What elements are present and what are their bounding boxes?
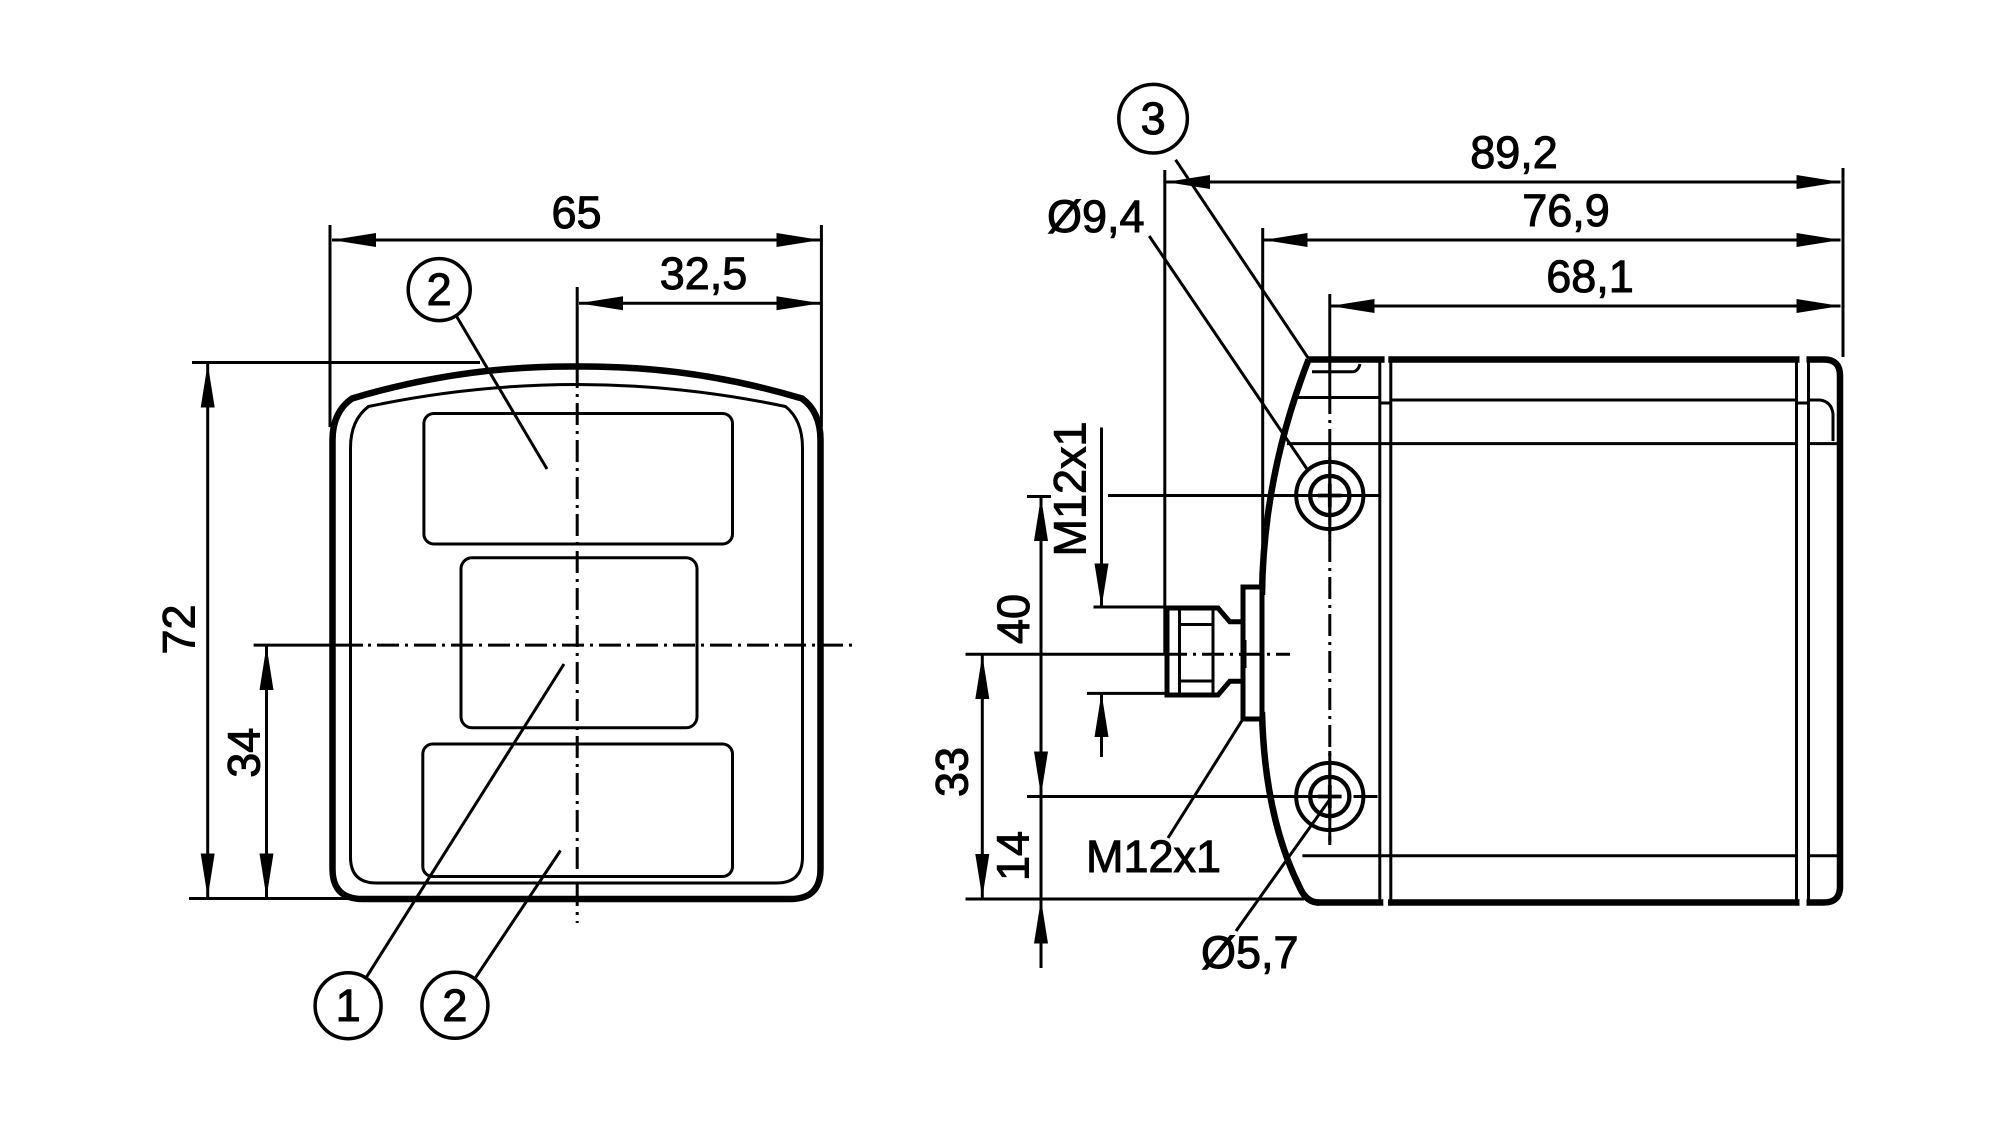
callout 2 (bottom): leader line to bottom window — [475, 851, 561, 979]
M12 connector thread minor line (bottom) — [1180, 680, 1214, 683]
dimension M12x1: dimension line lower segment — [1100, 693, 1103, 757]
svg-text:M12x1: M12x1 — [1045, 421, 1096, 556]
dimension 72: top extension line — [192, 361, 480, 364]
housing horizontal parting line (lower) — [1302, 854, 1796, 857]
svg-text:65: 65 — [551, 187, 601, 238]
dimension 65: left arrowhead — [332, 233, 376, 247]
top illumination window (2) — [424, 414, 733, 545]
M12 connector flange plate — [1243, 587, 1262, 719]
connector axis centerline: dash-dot — [1165, 653, 1290, 656]
dimension 33: top arrowhead — [975, 655, 989, 699]
M12 connector thread runout line (right) — [1212, 608, 1215, 695]
callout 1: leader line to middle window — [366, 664, 564, 978]
dimension M12x1: upper outside arrowhead (pointing down) — [1095, 564, 1109, 608]
top mounting hole: counterbore circle Ø9,4 — [1296, 462, 1363, 529]
side view curved front face (upper segment) — [1262, 360, 1309, 596]
svg-text:2: 2 — [427, 264, 452, 315]
M12 connector plug body (outline) — [1167, 608, 1243, 695]
dimension 40: top arrowhead — [1034, 497, 1048, 541]
dimension 89,2: right arrowhead — [1797, 175, 1841, 189]
dimension 32,5: right arrowhead — [777, 296, 821, 310]
dimension 68,1: right arrowhead — [1797, 299, 1841, 313]
connector axis centerline: solid extension — [966, 653, 1166, 656]
callout circle 2 (bottom) — [422, 972, 488, 1038]
dimension M12x1: bottom extension line — [1087, 692, 1167, 695]
M12 connector chamfer line (left) — [1178, 608, 1181, 695]
bottom extension line (body base level) — [966, 898, 1305, 901]
back cover joint line (vertical pair, right) — [1795, 361, 1798, 901]
svg-text:76,9: 76,9 — [1522, 185, 1610, 236]
dimension 40/14: dimension line — [1040, 497, 1043, 969]
callout 3: leader line to top slot — [1176, 160, 1309, 359]
dimension 89,2: dimension line — [1166, 181, 1841, 184]
middle camera lens window (1) — [461, 558, 697, 728]
dimension 34: dimension line — [265, 645, 268, 898]
callout circle 2 (top) — [408, 259, 470, 321]
top mounting hole: horizontal crosshair — [1279, 494, 1380, 497]
M12 connector plug body (white fill) — [1167, 608, 1243, 695]
dimension 32,5: dimension line — [579, 302, 821, 305]
bottom mounting hole: counterbore circle Ø9,4 — [1296, 763, 1363, 830]
svg-text:68,1: 68,1 — [1546, 251, 1634, 302]
side view back (right) edge — [1837, 376, 1844, 887]
horizontal centerline (front view), solid left extension — [254, 644, 363, 647]
callout circle 1 (bottom) — [315, 973, 381, 1039]
bottom mounting hole axis extension line — [1027, 795, 1340, 798]
side view bottom edge — [1316, 887, 1840, 903]
dimension 72: dimension line — [206, 363, 209, 899]
dimension 89,2: left extension line — [1163, 170, 1166, 654]
dimension M12x1: dimension line upper segment — [1100, 428, 1103, 608]
svg-text:Ø5,7: Ø5,7 — [1201, 927, 1299, 978]
dimension 33: dimension line — [981, 654, 984, 899]
top mounting hole: vertical crosshair solid — [1328, 451, 1331, 542]
bottom illumination window (2) — [423, 744, 733, 877]
dimension 40: top extension tick (hole axis level) — [1027, 495, 1051, 498]
dimension 34: top arrowhead — [260, 646, 274, 690]
bottom mounting hole: center cross — [1318, 785, 1342, 809]
dimension 89,2: left arrowhead — [1166, 175, 1210, 189]
callout 2 (top): leader line to top window — [456, 315, 547, 469]
groove bottom between joint lines (right pair) — [1797, 402, 1809, 405]
dimension 76,9: right arrowhead — [1797, 233, 1841, 247]
label Ø5,7: leader line to bottom hole — [1236, 801, 1329, 932]
dimension 40: bottom arrowhead — [1034, 752, 1048, 796]
svg-text:1: 1 — [336, 980, 361, 1031]
svg-text:32,5: 32,5 — [660, 248, 748, 299]
svg-text:40: 40 — [988, 594, 1039, 644]
svg-text:89,2: 89,2 — [1470, 127, 1558, 178]
dimension 40: hole axis extension line (right of text) — [1108, 494, 1279, 497]
svg-text:3: 3 — [1141, 93, 1166, 144]
side view curved front face (lower segment) — [1262, 712, 1319, 903]
dimension 76,9: left extension line — [1261, 228, 1264, 585]
svg-text:M12x1: M12x1 — [1086, 831, 1221, 882]
sensor housing inner outline (front bezel) — [351, 385, 803, 884]
dimension 33: bottom arrowhead — [975, 854, 989, 898]
dimension 76,9: dimension line — [1264, 239, 1841, 242]
top mounting hole: thread circle Ø5,7 — [1310, 476, 1349, 515]
mounting hole axis: solid extension (top) — [1328, 294, 1331, 392]
dimension 34: bottom arrowhead — [260, 854, 274, 898]
bottom mounting hole: vertical crosshair solid — [1328, 751, 1331, 842]
bottom mounting hole: horizontal crosshair — [1354, 795, 1378, 798]
housing horizontal parting line (second) — [1287, 442, 1797, 445]
top mounting hole: center cross — [1318, 484, 1342, 508]
dimension 68,1: dimension line — [1331, 305, 1841, 308]
vertical centerline (front view), dash-dot — [576, 366, 579, 923]
side view top edge — [1309, 360, 1840, 376]
housing horizontal parting line (upper) — [1296, 396, 1380, 399]
label Ø9,4: leader line to top hole — [1149, 236, 1307, 469]
sensor housing outer outline (front view) — [333, 366, 821, 899]
connector axis cross tick on flange — [1244, 640, 1247, 668]
M12 connector thread minor line (top) — [1180, 623, 1214, 626]
label M12x1: leader line to flange corner — [1168, 719, 1243, 838]
dimension 65: right arrowhead — [777, 233, 821, 247]
dimension M12x1: lower outside arrowhead (pointing up) — [1095, 693, 1109, 737]
mounting hole axis: dash-dot vertical — [1328, 392, 1331, 845]
svg-text:33: 33 — [927, 747, 978, 797]
svg-text:14: 14 — [988, 831, 1039, 881]
svg-text:Ø9,4: Ø9,4 — [1047, 191, 1145, 242]
groove bottom between joint lines (left pair) — [1380, 402, 1391, 405]
svg-text:2: 2 — [442, 980, 467, 1031]
top-left slot (3) — [1312, 364, 1360, 372]
dimension 72: top arrowhead — [201, 364, 215, 408]
dimension 32,5: left arrowhead — [579, 296, 623, 310]
dimension 65: left extension line — [329, 225, 332, 427]
vertical centerline (front view), solid upper extension — [576, 287, 579, 366]
dimension 14: bottom outside arrowhead — [1034, 900, 1048, 944]
horizontal centerline (front view), dash-dot — [368, 644, 852, 647]
svg-text:34: 34 — [219, 728, 270, 778]
callout circle 3 — [1119, 84, 1188, 153]
svg-text:72: 72 — [154, 604, 205, 654]
dimension 72: bottom extension line — [189, 897, 445, 900]
dimension 68,1: left arrowhead — [1331, 299, 1375, 313]
dimension 76,9: left arrowhead — [1264, 233, 1308, 247]
dimension 72: bottom arrowhead — [201, 854, 215, 898]
dimension 65: dimension line — [332, 239, 821, 242]
bottom mounting hole: thread circle Ø5,7 — [1310, 777, 1349, 816]
dimension M12x1: top extension line — [1094, 606, 1168, 609]
dimension 89,2 / 76,9 / 68,1: right extension line — [1842, 168, 1845, 357]
dimension 65: right extension line — [820, 225, 823, 427]
front module joint line (vertical pair, left) — [1378, 361, 1381, 901]
